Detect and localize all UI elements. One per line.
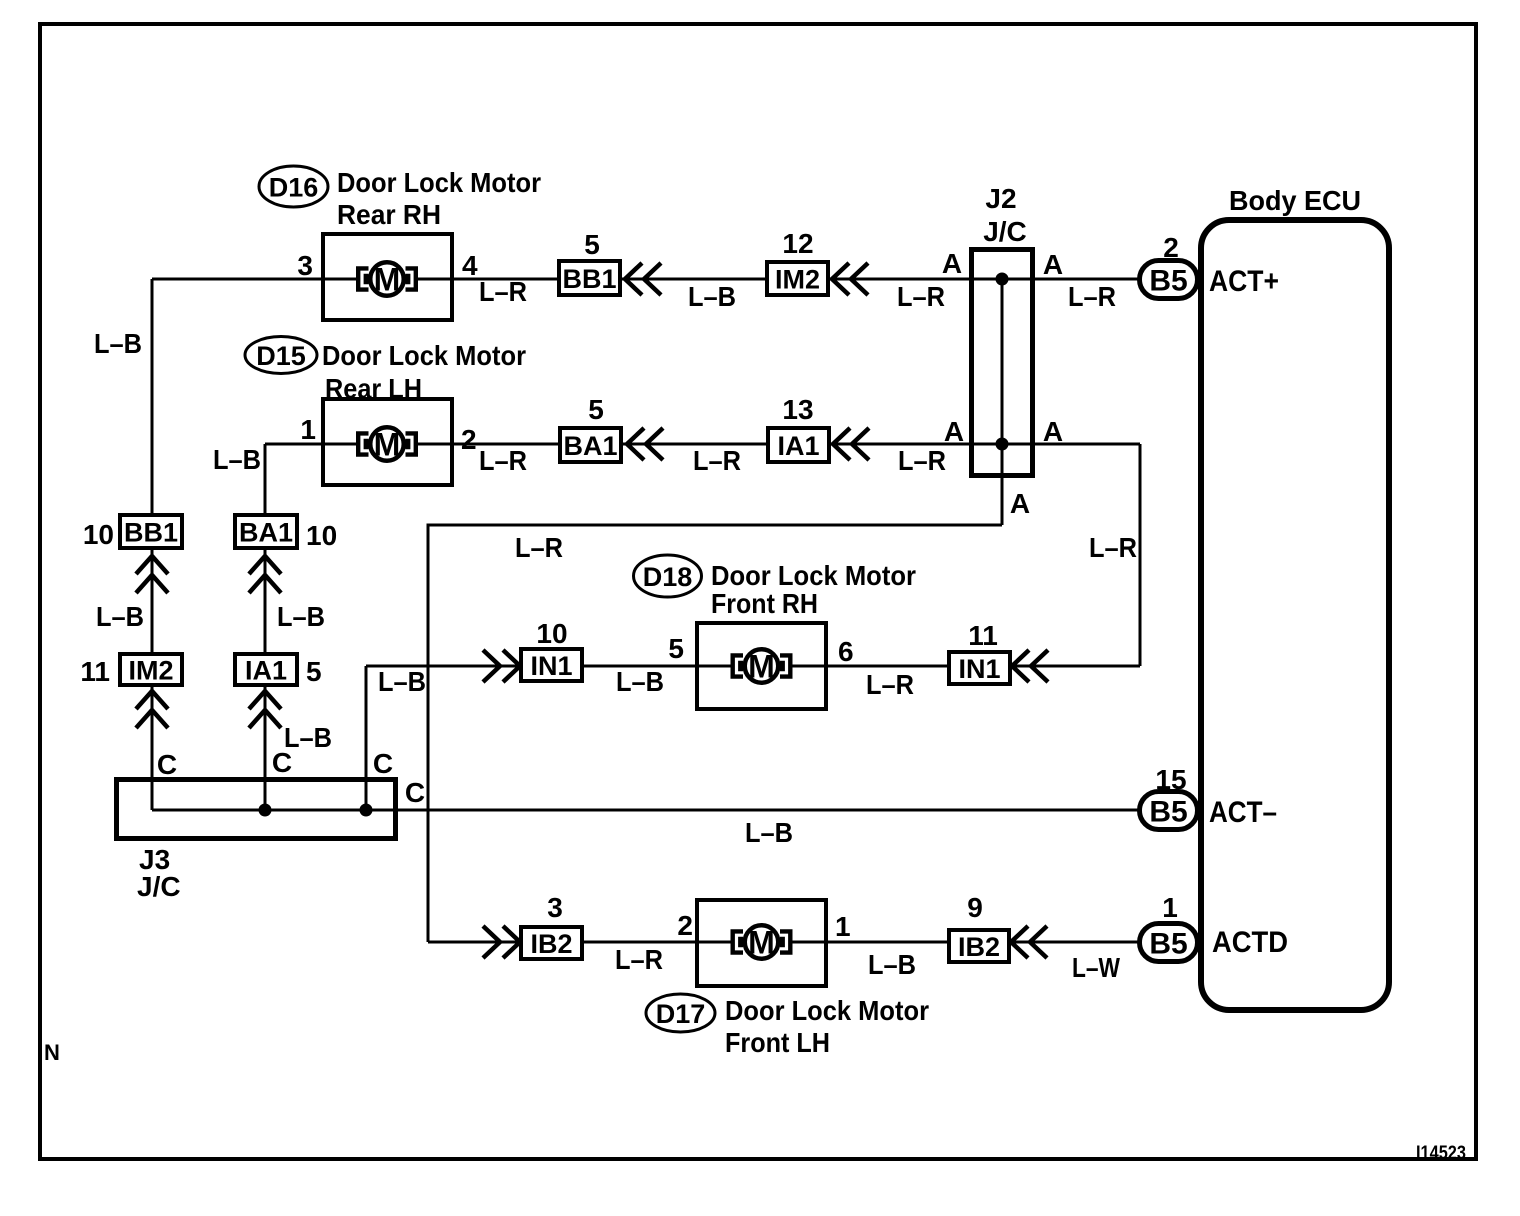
svg-text:L–R: L–R [1068,281,1116,312]
connector arrows below BB1 left [136,556,168,574]
junction connector J2 J/C [972,250,1033,476]
wire IB2 to B5 ACTD (L-W) [1011,941,1139,944]
connector BB1 (row1) [559,261,620,295]
connector BA1 (left) [235,515,297,548]
wire IA1 left to J3 (L-B,C) [264,687,267,810]
svg-text:A: A [944,416,964,447]
svg-text:BA1: BA1 [239,518,293,548]
wire riser D16 pin3 to BB1 (L-B) [151,279,154,513]
junction node J2-A2 [996,438,1009,451]
connector arrows at BA1 [627,428,644,460]
svg-text:15: 15 [1155,764,1186,795]
svg-text:L–R: L–R [479,445,527,476]
svg-text:L–B: L–B [745,817,793,848]
connector arrows at IM2 [832,263,849,295]
connector IA1 (left) [235,654,297,686]
svg-text:6: 6 [838,636,854,667]
svg-text:L–B: L–B [94,328,142,359]
connector arrows below IM2 left [136,691,168,709]
svg-text:Door Lock Motor: Door Lock Motor [322,340,526,371]
wire D16 pin4 to BB1 (L-R) [452,278,559,281]
svg-text:11: 11 [80,656,110,687]
svg-text:4: 4 [462,250,478,281]
wire IN1 to D18 pin5 (L-B) [584,665,697,668]
svg-text:C: C [157,749,177,780]
svg-text:L–R: L–R [479,276,527,307]
wire D16 pin3 to left riser (L-B) [152,278,323,281]
wire BA1 to IA1 (L-R) [623,443,768,446]
svg-text:1: 1 [1162,892,1178,923]
svg-text:IN1: IN1 [530,651,572,681]
svg-text:D17: D17 [656,999,706,1029]
wire riser D15 pin1 to BA1 (L-B) [264,444,267,513]
svg-text:L–R: L–R [897,281,945,312]
svg-text:ACTD: ACTD [1212,926,1288,959]
connector arrows at IN1 left [483,650,500,682]
svg-text:5: 5 [588,394,604,425]
motor symbol M of D16 [323,262,451,298]
svg-text:IB2: IB2 [530,929,572,959]
wire IM2 left to J3 (C) [151,687,154,810]
connector oval D16 [259,166,328,207]
svg-text:M: M [374,262,401,298]
svg-text:L–R: L–R [866,669,914,700]
connector IB2 (left) [521,927,582,959]
door lock motor D15 box [323,399,452,485]
wire IB2 to D17 pin2 (L-R) [584,941,697,944]
wire D15 pin1 to riser (L-B) [265,443,323,446]
svg-text:L–R: L–R [615,944,663,975]
wire IM2 to J2 to B5 ACT+ (L-R) [830,278,1139,281]
motor symbol M of D18 [698,649,826,685]
svg-text:L–B: L–B [378,666,426,697]
Body ECU block U1 [1201,220,1389,1010]
wire J2 to IN1 right (L-R) [1139,444,1142,666]
connector IM2 (row1) [767,262,828,295]
svg-text:D16: D16 [269,173,319,203]
connector IM2 (left) [120,654,182,686]
svg-text:B5: B5 [1149,796,1187,829]
wire J3 branch to IN1 (L-B) [366,665,521,668]
connector IN1 (right) [949,652,1010,684]
connector BA1 (row2) [560,428,621,462]
svg-text:IA1: IA1 [245,656,287,686]
svg-text:A: A [1043,249,1063,280]
svg-text:C: C [373,748,393,779]
wire IA1 through J2 (L-R) [831,443,1140,446]
connector IB2 (right) [949,930,1009,962]
connector oval D15 [245,337,317,374]
svg-text:IM2: IM2 [775,265,820,295]
svg-text:Door Lock Motor: Door Lock Motor [711,560,916,591]
connector BB1 (left) [120,515,182,548]
ECU connector B5 pin15 [1140,792,1198,830]
connector arrows at IA1 [833,428,850,460]
svg-text:A: A [1010,488,1030,519]
svg-text:BB1: BB1 [124,518,178,548]
door lock motor D17 box [697,900,826,986]
svg-text:12: 12 [782,228,813,259]
junction node J2-A1 [996,273,1009,286]
svg-text:3: 3 [297,250,313,281]
svg-text:1: 1 [300,414,316,445]
wire BB1 to IM2 (L-B) [622,278,767,281]
svg-text:A: A [1043,416,1063,447]
junction connector J3 J/C [117,780,396,839]
connector arrows at IB2 left [483,926,500,958]
svg-text:C: C [405,777,425,808]
svg-text:N: N [44,1040,60,1065]
svg-text:I14523: I14523 [1416,1143,1466,1164]
svg-text:Front RH: Front RH [711,588,818,619]
svg-text:L–R: L–R [693,445,741,476]
motor symbol M of D17 [698,925,826,961]
svg-text:Door Lock Motor: Door Lock Motor [337,167,541,198]
door lock motor D16 box [323,234,452,320]
wire J2 bottom A to IB2 riser (L-R) [428,525,1002,942]
svg-text:9: 9 [967,892,983,923]
svg-text:10: 10 [306,520,337,551]
svg-text:L–B: L–B [213,444,261,475]
svg-text:1: 1 [835,911,851,942]
svg-text:B5: B5 [1149,928,1187,961]
svg-text:L–B: L–B [616,666,664,697]
svg-text:L–B: L–B [277,601,325,632]
connector IA1 (row2) [768,428,829,462]
connector arrows below BA1 left [249,556,281,574]
svg-text:J/C: J/C [137,871,181,902]
svg-text:J2: J2 [985,183,1016,214]
connector arrows at BB1 [625,263,642,295]
svg-text:IA1: IA1 [777,431,819,461]
svg-text:Rear LH: Rear LH [325,373,422,404]
connector IN1 (left) [521,649,582,681]
wire D17 pin1 to IB2 right (L-B) [826,941,949,944]
wire BA1 to IA1 left (L-B) [264,550,267,654]
wire ACT- bus J3 to B5 (L-B) [152,809,1139,812]
svg-text:2: 2 [1163,232,1179,263]
svg-text:11: 11 [968,620,998,651]
svg-text:2: 2 [461,424,477,455]
connector oval D18 [634,555,702,597]
svg-text:3: 3 [547,892,563,923]
svg-text:L–R: L–R [515,532,563,563]
svg-text:M: M [748,925,775,961]
door lock motor D18 box [697,623,826,709]
wire riser to IB2 (L-R) [428,941,521,944]
svg-text:Front LH: Front LH [725,1027,830,1058]
svg-text:C: C [272,747,292,778]
svg-text:M: M [748,649,775,685]
svg-text:IN1: IN1 [958,654,1000,684]
svg-text:L–W: L–W [1072,952,1120,983]
connector arrows at IB2 right [1011,926,1028,958]
motor symbol M of D15 [323,427,451,463]
svg-text:J/C: J/C [983,216,1027,247]
svg-text:Rear RH: Rear RH [337,199,441,230]
wire BB1 to IM2 left (L-B) [151,550,154,654]
svg-text:10: 10 [536,618,567,649]
svg-text:5: 5 [306,656,322,687]
svg-text:A: A [942,248,962,279]
svg-text:B5: B5 [1149,265,1187,298]
svg-text:5: 5 [584,229,600,260]
svg-text:IB2: IB2 [958,932,1000,962]
svg-text:L–B: L–B [688,281,736,312]
svg-text:ACT–: ACT– [1209,796,1277,829]
connector arrows below IA1 left [249,691,281,709]
svg-text:BB1: BB1 [562,264,616,294]
junction node J3-1 [259,804,272,817]
connector oval D17 [646,994,715,1032]
svg-text:5: 5 [668,633,684,664]
wire IN1 right to J2 riser [1012,665,1140,668]
wire D18 pin6 to IN1 right (L-R) [826,665,949,668]
svg-text:D18: D18 [643,562,693,592]
ECU connector B5 pin1 [1140,924,1198,962]
svg-text:IM2: IM2 [128,656,173,686]
svg-text:Door Lock Motor: Door Lock Motor [725,995,929,1026]
svg-text:L–R: L–R [898,445,946,476]
svg-text:2: 2 [677,910,693,941]
svg-text:10: 10 [83,519,114,550]
svg-text:BA1: BA1 [563,431,617,461]
wire IN1 branch riser to J3 (L-B) [365,666,368,810]
svg-text:M: M [374,427,401,463]
ECU connector B5 pin2 [1140,261,1198,299]
svg-text:Body ECU: Body ECU [1229,185,1361,216]
svg-text:13: 13 [782,394,813,425]
svg-text:L–R: L–R [1089,532,1137,563]
svg-text:D15: D15 [256,341,306,371]
svg-text:L–B: L–B [868,949,916,980]
svg-text:ACT+: ACT+ [1209,265,1279,298]
connector arrows at IN1 right [1012,650,1029,682]
junction node J3-2 [360,804,373,817]
wire J2 internal bus [1001,279,1004,525]
svg-text:L–B: L–B [96,601,144,632]
wire D15 pin2 to BA1 (L-R) [452,443,560,446]
